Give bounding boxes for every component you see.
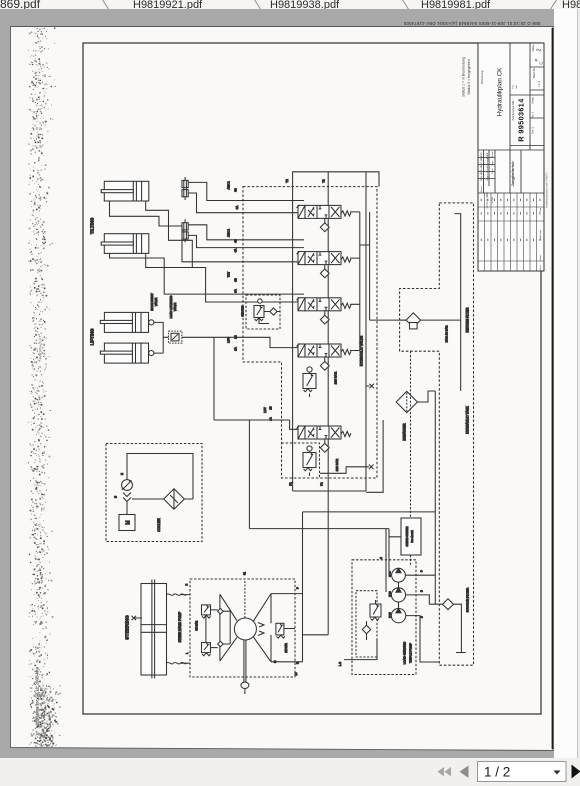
svg-text:COOLER: COOLER: [157, 518, 161, 532]
svg-text:Masst.: Masst.: [480, 185, 483, 192]
svg-text:R: R: [517, 136, 526, 142]
svg-text:See sheet 2: See sheet 2: [411, 530, 414, 543]
svg-text:quality doc 27.11.2008 kke: quality doc 27.11.2008 kke: [35, 666, 40, 721]
pump outlet wires: [405, 575, 442, 604]
trunk wire horizontal: [249, 528, 389, 530]
svg-text:LIFT: LIFT: [263, 407, 267, 413]
pump 3 outlet to tank: [406, 616, 440, 662]
X plug 1: [366, 384, 374, 389]
svg-text:140 BAR: 140 BAR: [285, 643, 288, 653]
svg-text:Ers. f.: Ers. f.: [531, 111, 535, 118]
X plug 2: [320, 465, 374, 474]
svg-text:M 029: M 029: [390, 611, 392, 617]
P line from manifold to steering: [303, 491, 329, 635]
LS wire: [344, 640, 377, 660]
svg-text:GUARD SYSTEM: GUARD SYSTEM: [406, 526, 409, 546]
hydraulic valve assembly dashed boundary: [243, 187, 377, 478]
svg-text:|: |: [41, 696, 46, 697]
right side T bus: [350, 212, 370, 351]
svg-text:Jungheinrich: Jungheinrich: [510, 161, 515, 187]
svg-text:2B: 2B: [234, 335, 238, 339]
shuttle valve diamond: [320, 439, 329, 452]
svg-text:LIFT: LIFT: [227, 337, 231, 343]
svg-text:C: C: [539, 61, 544, 64]
svg-text:R: R: [297, 662, 300, 664]
svg-text:LOAD SENSING: LOAD SENSING: [403, 641, 407, 664]
svg-text:3A: 3A: [234, 289, 238, 293]
svg-text:99503614: 99503614: [517, 98, 526, 133]
svg-text:TRIPLE PUMP: TRIPLE PUMP: [409, 643, 413, 663]
return filter: [400, 313, 461, 329]
valve section 2 (AUX1): [297, 251, 352, 265]
pressure reducer 2: [303, 446, 316, 476]
shuttle valve diamond: [320, 265, 329, 278]
X plug steering: [132, 616, 143, 621]
svg-text:Buffer: Buffer: [486, 167, 489, 173]
svg-text:STEER HAND PUMP: STEER HAND PUMP: [178, 612, 182, 643]
svg-text:Änderung: Änderung: [539, 229, 542, 239]
priority check diamond: [362, 621, 370, 640]
svg-text:Zeichnungs-NR.:: Zeichnungs-NR.:: [511, 99, 515, 121]
svg-text:Blatt BL: Blatt BL: [532, 67, 536, 78]
pilot relief valve: [254, 299, 280, 324]
cooler fan: [122, 480, 133, 491]
pressure reducer 1: [303, 367, 316, 397]
shuttle valve diamond: [320, 357, 329, 370]
valve section 1 (AUX2): [297, 205, 352, 219]
svg-text:Hydraulikplan CK: Hydraulikplan CK: [497, 67, 504, 116]
pilot relief assembly dashed box: [246, 295, 280, 329]
valve section 4 (LIFT): [297, 344, 352, 358]
svg-text:1 / 2: 1 / 2: [484, 765, 510, 780]
suction filter: [443, 599, 466, 653]
steering supply wire: [271, 512, 303, 662]
speckle band (scan artifact): [28, 28, 60, 747]
steering unit rotor: [220, 594, 271, 662]
svg-text:M 029: M 029: [390, 590, 392, 596]
wire aux2 B: [188, 182, 304, 200]
svg-text:220 BAR: 220 BAR: [334, 371, 338, 384]
svg-text:HYDRAULIC VALVE: HYDRAULIC VALVE: [360, 335, 364, 366]
svg-text:Wagner: Wagner: [486, 173, 489, 181]
steering relief valve 1: [202, 605, 218, 643]
svg-text:Status: Status: [532, 44, 535, 52]
svg-text:Norm: Norm: [491, 168, 494, 174]
svg-text:N: N: [121, 473, 124, 475]
shuttle valve diamond: [320, 311, 329, 324]
svg-text:3B: 3B: [234, 278, 238, 282]
return trunk: [434, 391, 436, 604]
wire aux1 A: [188, 235, 304, 247]
svg-text:AUX 1: AUX 1: [227, 229, 231, 238]
svg-text:VALVE: VALVE: [173, 303, 177, 311]
fax header text: [403, 21, 540, 26]
steer hand pump dashed box: [190, 579, 295, 677]
cooler motor: [119, 502, 135, 531]
tank return wire: [303, 511, 436, 513]
svg-text:08.11.06: 08.11.06: [481, 172, 483, 181]
wire lowering valve to valve bank: [154, 337, 304, 353]
svg-text:2A: 2A: [234, 347, 238, 351]
pump shaft line: [398, 582, 400, 608]
valve section 5 dashed sub-box: [282, 443, 320, 478]
guard system box: [401, 518, 421, 555]
pump 2: [391, 588, 405, 602]
svg-text:MAG 10 BAR: MAG 10 BAR: [445, 326, 449, 343]
tank internal return pipe: [455, 214, 461, 391]
hydraulic tank dashed boundary: [400, 203, 474, 665]
svg-text:Bearbeitungsstand nach DIN6771: Bearbeitungsstand nach DIN6771: [546, 171, 549, 208]
svg-text:Zust: Zust: [539, 207, 542, 212]
breather: [396, 391, 435, 413]
tilt cylinder 1: [101, 181, 149, 201]
pump pressure risers: [386, 529, 401, 592]
guard system sense line: [410, 351, 412, 566]
wire tilt 1: [110, 201, 305, 262]
shuttle valve diamond: [320, 218, 329, 231]
svg-text:STEERING: STEERING: [125, 615, 131, 640]
tilt cylinder 2: [101, 234, 149, 254]
svg-text:Ers. d.: Ers. d.: [531, 126, 535, 134]
svg-text:02.11.06: 02.11.06: [481, 165, 483, 174]
svg-text:Version: 00: Version: 00: [39, 340, 43, 357]
svg-text:Name: Name: [540, 264, 542, 271]
svg-text:M.F.S.-N. 3000-: M.F.S.-N. 3000-: [486, 191, 489, 208]
trunk wire vertical 2: [248, 420, 250, 529]
svg-text:M 029: M 029: [390, 570, 392, 576]
svg-text:RETURN FILTER: RETURN FILTER: [465, 307, 469, 333]
svg-text:Urspr.: Urspr.: [531, 96, 535, 103]
svg-text:4B: 4B: [234, 239, 238, 243]
valve section 3 (TILT): [297, 297, 352, 311]
coupling chevrons: [123, 493, 131, 502]
steering cylinder: [141, 580, 190, 679]
svg-text:Status 1 = in Bearbeitung: Status 1 = in Bearbeitung: [462, 57, 466, 96]
lift cylinder 2: [100, 343, 154, 363]
svg-text:LOAD LOWERING: LOAD LOWERING: [169, 296, 173, 319]
valve section 5 (inlet): [297, 426, 352, 440]
svg-text:Gepr.: Gepr.: [491, 160, 494, 166]
steering check diamonds: [218, 608, 231, 646]
wire tilt 2: [146, 201, 304, 302]
pump 3: [391, 608, 405, 622]
wire aux1 B: [188, 225, 304, 240]
hydraulic valve manifold body: [293, 172, 384, 493]
steering relief valve 2: [202, 643, 218, 656]
priority valve dashed box: [356, 591, 377, 657]
priority relief valve: [370, 600, 381, 620]
svg-text:4A: 4A: [234, 249, 238, 253]
load lowering valve: [169, 331, 182, 343]
svg-text:/ 1-2: / 1-2: [537, 81, 541, 87]
pump assembly dashed box: [352, 560, 416, 675]
svg-text:Für: Für: [512, 85, 515, 89]
svg-text:300 BAR: 300 BAR: [196, 621, 199, 631]
cooler bypass check valve: [164, 489, 185, 510]
svg-text:220 BAR: 220 BAR: [335, 458, 339, 471]
wire lift inlet: [214, 337, 298, 429]
aux 2 quick coupling: [182, 177, 188, 200]
P bus line: [327, 172, 329, 491]
svg-text:P1: P1: [320, 482, 324, 486]
steering R port wire: [271, 661, 303, 663]
svg-text:2: 2: [537, 48, 543, 51]
svg-text:IBM O 20:10:01 J08-11-800S 54: IBM O 20:10:01 J08-11-800S 5449948 (a)AS…: [403, 21, 540, 26]
svg-text:HOSE BURST: HOSE BURST: [150, 293, 154, 311]
svg-text:L.S: L.S: [338, 662, 342, 666]
svg-text:Scheringa: Scheringa: [486, 157, 489, 168]
svg-text:SUCTION FILTER: SUCTION FILTER: [465, 587, 469, 612]
svg-text:Datum: Datum: [480, 152, 483, 159]
svg-text:U.Sgl.: U.Sgl.: [491, 196, 494, 203]
svg-text:Datum: Datum: [539, 255, 542, 262]
svg-text:BREATHER: BREATHER: [403, 423, 407, 441]
pump 1: [392, 568, 406, 582]
svg-text:T1: T1: [322, 179, 326, 183]
wire tilt 4: [146, 253, 193, 267]
svg-text:1B: 1B: [269, 406, 273, 409]
svg-text:Bearb.: Bearb.: [491, 150, 494, 157]
svg-text:T2: T2: [285, 179, 289, 183]
svg-text:TILTING: TILTING: [90, 217, 95, 234]
return line to filter: [370, 319, 406, 321]
svg-text:TILT: TILT: [227, 271, 231, 277]
cooler circulation loop: [127, 454, 193, 500]
svg-text:VALVE: VALVE: [154, 298, 158, 306]
svg-text:LIFTING: LIFTING: [90, 328, 95, 345]
wire tilt 3: [110, 253, 305, 294]
svg-text:M: M: [126, 520, 132, 524]
drawing frame border: [83, 43, 541, 714]
lift cylinder 1: [100, 312, 154, 332]
steering column: [244, 579, 246, 618]
svg-text:3A: 3A: [235, 206, 239, 210]
title block: [478, 43, 544, 271]
svg-text:P: P: [534, 58, 539, 61]
svg-text:HYDRAULIC TANK: HYDRAULIC TANK: [465, 405, 469, 433]
svg-text:Benennung:: Benennung:: [480, 70, 484, 84]
svg-text:AUX 2: AUX 2: [227, 181, 231, 190]
svg-text:F1: F1: [289, 482, 293, 486]
svg-text:N: N: [115, 496, 118, 498]
wire lift cyl1 to lowering valve: [154, 322, 169, 353]
svg-text:6B: 6B: [234, 188, 238, 192]
svg-text:Status 2 = freigegeben: Status 2 = freigegeben: [467, 59, 471, 94]
cooler dashed box: [106, 444, 202, 542]
steering relief valve 3: [276, 623, 295, 638]
wire aux2 A: [188, 193, 304, 213]
aux 1 quick coupling: [182, 219, 188, 242]
